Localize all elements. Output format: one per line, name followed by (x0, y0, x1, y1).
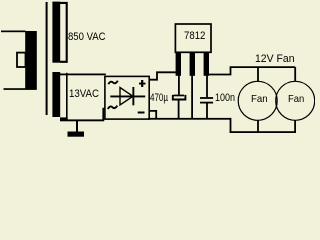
wire 13VAC top to bridge (60, 74, 106, 76)
secondary 13VAC bobbin bracket (66, 73, 68, 121)
wire ground stem (76, 120, 78, 132)
capacitor C2 100n top plate (200, 97, 213, 99)
ground bus wire (148, 118, 231, 120)
wire mains neutral bottom (4, 88, 37, 90)
label Fan 1 (251, 94, 268, 105)
wire 7812 output to fan bus with step up (209, 67, 295, 74)
capacitor C1 cup bottom plate (173, 95, 186, 100)
transformer secondary 850VAC winding bar (52, 2, 60, 63)
label 470u (150, 93, 168, 104)
wire 13VAC bottom run (60, 119, 104, 121)
7812 pin 3 output leg (204, 52, 209, 76)
label 7812 (184, 31, 205, 42)
fuse box on primary (17, 53, 26, 67)
secondary 850VAC bobbin bracket (60, 3, 67, 62)
label Fan 2 (288, 94, 304, 105)
wire step up into bridge lower ac input (103, 109, 105, 121)
wire fan2 top stub (294, 67, 296, 82)
7812 pin 2 ground leg (190, 52, 195, 76)
bridge AC tilde top (108, 81, 118, 84)
wire fan1 top stub (257, 67, 259, 82)
wire output leg down to C2 (206, 76, 208, 98)
transformer secondary 13VAC winding bar (52, 72, 60, 117)
wire bridge plus output zigzag to 7812 input (149, 72, 176, 79)
wire ground bus step down (230, 118, 232, 133)
ground symbol bar (68, 132, 85, 137)
fan M2 circle (276, 81, 315, 120)
capacitor C2 bottom plate (200, 102, 213, 104)
wire C2 bottom to ground bus (206, 104, 208, 120)
label 100n (215, 93, 235, 104)
label 13VAC (69, 89, 99, 100)
wire mains live top (1, 31, 26, 33)
bridge AC tilde bottom (108, 106, 118, 109)
bridge rectifier box (105, 76, 149, 119)
bridge minus mark (138, 112, 145, 114)
wire ground leg down to ground bus (191, 76, 193, 120)
wire input leg down to C1 (178, 76, 180, 95)
fan M1 circle (238, 81, 277, 120)
wire C1 bottom to ground bus (178, 100, 180, 119)
7812 pin 1 input leg (176, 52, 181, 76)
wire bridge minus bump to ground bus (150, 111, 157, 119)
regulator 7812 box (175, 24, 211, 52)
label 850 VAC (68, 32, 106, 43)
transformer TR1 primary winding bar (25, 31, 37, 89)
wire fan2 bottom stub (294, 120, 296, 133)
label 12V Fan (255, 54, 295, 65)
bridge plus mark (139, 80, 146, 87)
lower ground bus wire (230, 131, 296, 133)
wire fan1 bottom stub (257, 120, 259, 133)
transformer core line (46, 2, 48, 115)
junction winding bottom corner (60, 117, 68, 120)
bridge diode symbol (110, 87, 145, 105)
capacitor C1 470u top plate (174, 95, 185, 97)
